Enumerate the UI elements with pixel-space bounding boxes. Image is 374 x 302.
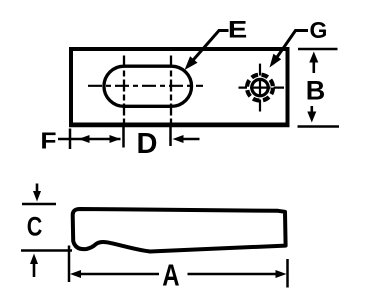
dimension B up arrow: [312, 60, 315, 73]
dimension B top tick: [298, 48, 338, 51]
side view outline: [73, 209, 286, 252]
dimension F extension line: [69, 129, 72, 150]
slot horizontal centerline: [88, 85, 203, 87]
leader E: [188, 31, 229, 67]
dimension D right extension line: [169, 127, 172, 147]
hole G inner circle: [252, 79, 268, 95]
dimension C top tick: [22, 203, 56, 206]
svg-text:G: G: [310, 17, 328, 43]
hole G outer serrated ring: [247, 75, 273, 101]
dimension F left arrowhead: [79, 135, 90, 143]
slot E obround: [104, 66, 192, 106]
svg-text:D: D: [137, 128, 158, 160]
slot right vertical centerline: [170, 56, 172, 123]
dimension C up arrow: [33, 260, 36, 277]
dimension A line left segment with arrowhead: [79, 273, 159, 276]
dimension D left extension line: [122, 127, 125, 148]
dimension F right arrowhead: [110, 135, 121, 143]
hole G vertical crosshair: [259, 64, 261, 112]
hole G horizontal crosshair: [239, 86, 285, 88]
dimension B down arrow: [310, 106, 313, 114]
svg-text:E: E: [228, 16, 247, 43]
svg-text:F: F: [40, 129, 56, 154]
dimension C down arrow: [36, 184, 39, 195]
dimension F line: [58, 138, 121, 141]
dimension A line right segment with arrowhead: [188, 273, 279, 276]
dimension D right arrow: [178, 138, 200, 141]
leader G: [274, 31, 308, 62]
svg-text:A: A: [162, 258, 179, 293]
dimension A left extension line: [68, 246, 71, 283]
slot left vertical centerline: [123, 56, 125, 123]
dimension C bottom tick: [21, 249, 72, 252]
top view plate bottom edge thickening: [69, 125, 290, 127]
svg-text:C: C: [27, 212, 43, 242]
dimension A right extension line: [286, 259, 289, 288]
dimension B bottom tick: [298, 125, 340, 128]
svg-text:B: B: [306, 76, 326, 106]
top view plate outline: [71, 49, 288, 125]
